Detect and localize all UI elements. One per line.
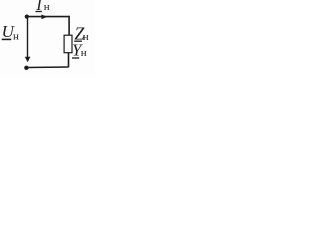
label Y_n (admittance)	[72, 41, 87, 60]
svg-text:н: н	[44, 1, 50, 13]
wire: left vertical (voltage branch)	[27, 17, 29, 59]
wire: top horizontal	[27, 16, 70, 18]
svg-text:н: н	[13, 30, 19, 42]
node: bottom-left terminal dot	[24, 66, 28, 70]
label U_n (voltage phasor)	[2, 22, 19, 42]
node: top-left terminal dot	[25, 15, 29, 19]
wire: right vertical lower (box to bottom)	[68, 53, 70, 67]
svg-text:н: н	[83, 31, 89, 43]
label Z_n (impedance)	[74, 24, 89, 44]
label I_n (current phasor)	[35, 0, 50, 14]
impedance box Z_n/Y_n	[64, 35, 72, 53]
current direction arrowhead on top wire	[41, 15, 47, 20]
wire: right vertical upper (to box)	[68, 16, 70, 35]
voltage direction arrowhead (down) on left wire	[25, 57, 31, 63]
wire: bottom horizontal	[26, 66, 68, 69]
svg-text:н: н	[81, 47, 87, 59]
